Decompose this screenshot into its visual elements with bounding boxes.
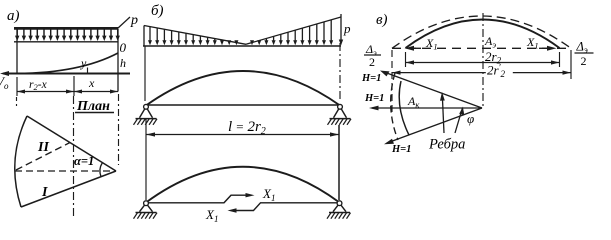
fan horizontal rib with H=1 arrow (panel v): [369, 106, 482, 111]
dashed chord line (panel v): [392, 47, 571, 49]
left vertical connector (panel b): [144, 46, 146, 101]
svg-text:2: 2: [369, 55, 375, 69]
arch 1 tie chord: [146, 104, 340, 106]
solid chord arc of fan: [399, 81, 409, 135]
svg-text:Ребра: Ребра: [428, 137, 465, 153]
svg-text:H=1: H=1: [361, 73, 381, 84]
right vertical connector dash-dot (panel b): [339, 43, 341, 101]
svg-text:x: x: [88, 76, 95, 90]
right edge line below point 0 (panel a): [117, 29, 119, 92]
leader arrow 2 from Rebra: [455, 107, 464, 134]
svg-text:p: p: [130, 13, 138, 28]
dimension l=2r2 (panel b): [146, 134, 339, 136]
svg-text:в): в): [376, 12, 388, 28]
pinned support right arch1: [328, 104, 352, 124]
angle arc alpha=1: [100, 163, 102, 177]
svg-text:а): а): [7, 8, 20, 24]
centre dash-dot vertical of plan: [73, 96, 75, 219]
arch 1 curve (panel b): [146, 71, 340, 106]
extension vertical left between arches: [145, 119, 147, 200]
X1 arrow right (panel v): [539, 46, 557, 51]
arch 2 cut tie with X1 pair: [147, 195, 340, 210]
dimension 2r2 (panel v): [406, 49, 560, 67]
pinned support right arch2: [327, 201, 351, 219]
distributed load band p (panel a): [14, 28, 118, 41]
svg-text:H=1: H=1: [391, 144, 411, 155]
svg-text:r2-x: r2-x: [29, 79, 48, 92]
svg-text:y: y: [80, 56, 87, 70]
svg-text:φ: φ: [467, 111, 474, 126]
left edge line of load (panel a): [16, 29, 18, 74]
extension vertical right between arches: [338, 125, 340, 200]
X1 arrow left (panel v): [405, 46, 422, 51]
dashed deformed arch (panel v): [392, 16, 571, 48]
dashed diagonal of sector: [16, 143, 70, 171]
load arrows (panel a): [15, 30, 120, 42]
dashed tail below left extension (panel a): [16, 97, 18, 106]
svg-text:p: p: [343, 21, 351, 36]
dimension line r2-x / x (panel a): [17, 76, 118, 96]
ordinate tick under y: [87, 68, 89, 74]
solid arch rib (panel v): [406, 20, 560, 49]
right dashed vertical of plan: [118, 94, 120, 165]
horizontal axis with left arrow (panel a): [3, 73, 130, 75]
arch 2 curve (panel b): [146, 167, 340, 203]
centre dash-dot line (panel v): [482, 13, 484, 108]
butterfly distributed load (panel b): [143, 14, 341, 46]
svg-text:H=1: H=1: [364, 93, 384, 104]
leader line to label p (panel a): [118, 17, 131, 29]
svg-text:I: I: [41, 185, 48, 200]
svg-text:2: 2: [581, 54, 587, 68]
dimension 2r-prime-2 (panel v): [392, 50, 571, 115]
meridian curve y (panel a): [17, 53, 118, 74]
dashed horizontal radius of sector: [15, 170, 116, 172]
leader arrow 1 from Rebra: [440, 92, 445, 133]
fraction De/2 right: [575, 40, 594, 69]
svg-text:б): б): [151, 3, 164, 19]
svg-text:0: 0: [120, 40, 127, 55]
fan sector plan view: [15, 116, 116, 207]
dashed outer arc of fan: [391, 73, 398, 140]
angle phi arc: [462, 108, 464, 115]
svg-text:II: II: [37, 140, 49, 155]
fan bottom rib with H=1 arrow (panel v): [384, 108, 482, 144]
pinned support left arch2: [134, 201, 158, 219]
fraction De/2 left: [364, 42, 381, 69]
svg-text:h: h: [120, 56, 126, 70]
fan top rib with H=1 arrow (panel v): [380, 71, 482, 109]
svg-text:α=1: α=1: [74, 154, 94, 168]
load arrows (panel b): [148, 20, 333, 46]
pinned support left arch1: [134, 104, 158, 124]
